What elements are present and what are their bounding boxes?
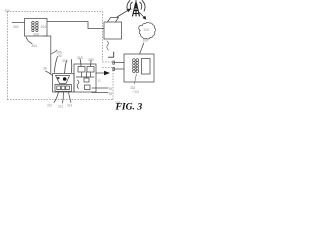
dashed enclosure left edge xyxy=(7,12,9,100)
svg-text:+334: +334 xyxy=(132,90,139,94)
converter box xyxy=(74,64,96,92)
dashed enclosure top edge xyxy=(8,11,103,13)
transformer box xyxy=(25,19,48,37)
svg-text:206: 206 xyxy=(34,32,40,36)
svg-text:314: 314 xyxy=(67,104,73,108)
svg-text:312: 312 xyxy=(58,105,64,109)
cell tower mast xyxy=(133,1,140,16)
leader to down wire xyxy=(52,50,58,54)
converter stub A xyxy=(81,72,83,77)
battery box xyxy=(53,74,75,93)
cell lead 3 xyxy=(69,92,72,103)
leader above battery box xyxy=(54,57,57,73)
svg-text:328: 328 xyxy=(144,28,150,32)
cell 3 xyxy=(66,86,70,90)
station coil secondary xyxy=(136,59,139,73)
terminal line upper xyxy=(92,87,108,89)
dashed enclosure right upper edge xyxy=(102,12,104,63)
wire left of transformer xyxy=(12,22,25,24)
leader strand extra xyxy=(71,60,73,73)
transformer secondary coil xyxy=(36,21,39,31)
svg-text:330: 330 xyxy=(143,39,149,43)
leader to converter B xyxy=(90,60,93,66)
cell lead 1 xyxy=(54,92,59,103)
plug prong lower xyxy=(113,67,115,70)
funnel inner mark xyxy=(57,77,59,79)
comm module tab xyxy=(108,18,119,23)
svg-text:30: 30 xyxy=(58,54,62,58)
bracket mark xyxy=(109,52,114,57)
wire transformer down to battery block xyxy=(44,36,51,74)
converter rect A xyxy=(78,67,85,73)
terminal line lower xyxy=(92,92,108,94)
svg-text:36: 36 xyxy=(109,87,113,91)
svg-text:30: 30 xyxy=(43,67,47,71)
leader border to battery box xyxy=(46,71,53,76)
comm module box xyxy=(104,22,122,39)
converter curves xyxy=(77,80,79,89)
wire transformer to comm module xyxy=(47,22,104,29)
cell pack box xyxy=(55,85,72,92)
plug prong upper xyxy=(113,61,115,64)
station leader xyxy=(140,43,144,54)
svg-text:204: 204 xyxy=(41,25,47,29)
converter tick xyxy=(86,72,88,78)
station rectifier rect xyxy=(142,59,151,75)
arrow to plug xyxy=(96,72,104,74)
station plug stub upper xyxy=(114,62,125,64)
svg-text:318: 318 xyxy=(77,56,83,60)
svg-text:320: 320 xyxy=(88,58,94,62)
charging station box xyxy=(124,54,154,82)
svg-text:32: 32 xyxy=(98,79,102,83)
cloud xyxy=(139,22,156,39)
cell lead 2 xyxy=(63,92,64,103)
svg-text:304: 304 xyxy=(32,44,38,48)
cell 1 xyxy=(57,86,61,90)
downlink arrow to cloud xyxy=(140,13,145,18)
station bottom label xyxy=(135,74,137,84)
contactor funnel xyxy=(56,76,70,84)
svg-text:FIG. 3: FIG. 3 xyxy=(115,101,143,112)
tower waves left xyxy=(127,1,132,12)
cell 2 xyxy=(61,86,65,90)
dashed step line A xyxy=(103,61,114,63)
antenna uplink arrow xyxy=(117,10,129,17)
tower waves right xyxy=(140,1,145,12)
converter rect D xyxy=(85,85,91,90)
dashed step line B xyxy=(103,67,114,69)
svg-text:302: 302 xyxy=(13,25,19,29)
converter stub B xyxy=(90,72,92,77)
junction dot xyxy=(63,77,67,81)
dashed enclosure right lower edge xyxy=(112,68,114,100)
station coil primary xyxy=(133,59,136,73)
converter mid line xyxy=(76,76,94,78)
converter rect C xyxy=(84,78,89,82)
leader below transformer xyxy=(26,37,32,44)
station plug stub lower xyxy=(114,68,125,70)
leader to converter A xyxy=(80,59,81,67)
converter rect B xyxy=(87,67,94,73)
svg-text:38: 38 xyxy=(109,92,113,96)
svg-text:310: 310 xyxy=(47,104,53,108)
svg-text:316: 316 xyxy=(62,59,68,63)
leader below comm module xyxy=(107,41,109,50)
leader to funnel xyxy=(65,61,67,74)
transformer primary coil xyxy=(32,21,35,31)
dashed enclosure bottom edge xyxy=(8,99,114,101)
